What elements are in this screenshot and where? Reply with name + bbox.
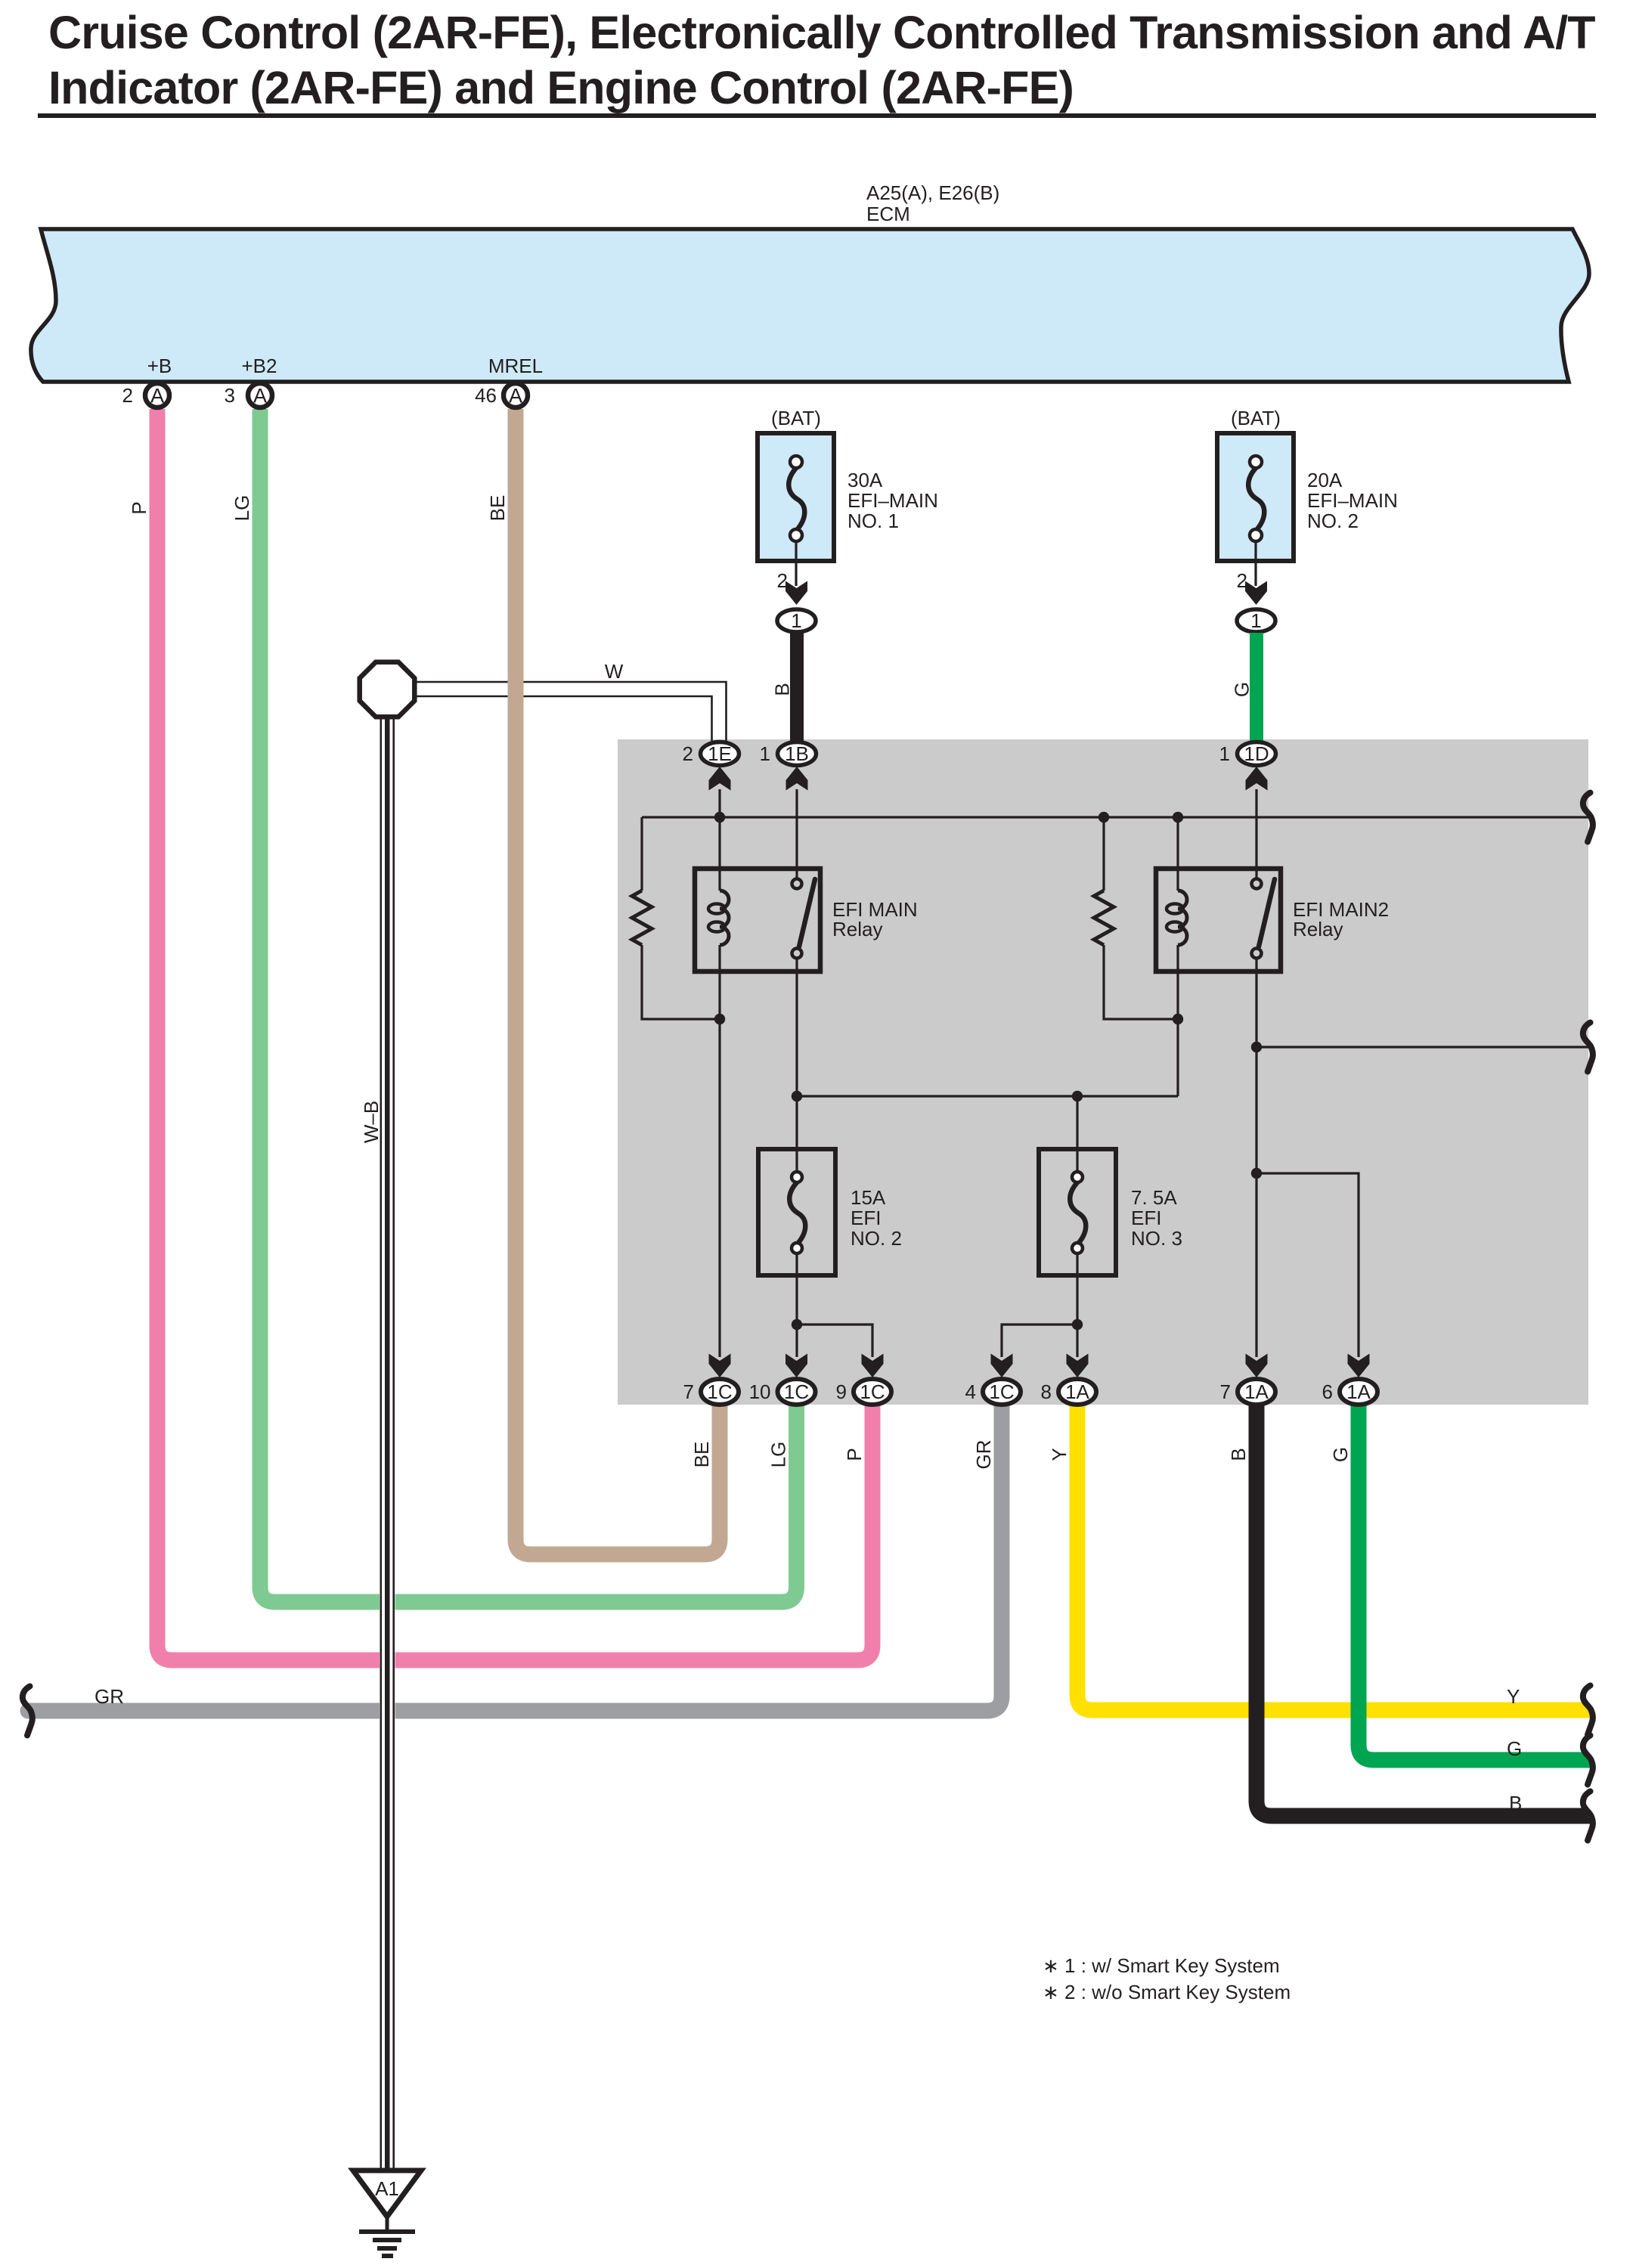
svg-text:7. 5A: 7. 5A	[1131, 1186, 1177, 1209]
svg-text:LG: LG	[767, 1442, 790, 1468]
svg-text:+B2: +B2	[242, 355, 277, 377]
svg-text:(BAT): (BAT)	[771, 407, 821, 429]
svg-text:A: A	[253, 385, 267, 407]
svg-text:7: 7	[683, 1380, 694, 1403]
svg-text:LG: LG	[231, 495, 253, 522]
svg-text:30A: 30A	[847, 469, 883, 491]
svg-text:EFI: EFI	[851, 1207, 881, 1229]
svg-text:(BAT): (BAT)	[1231, 407, 1281, 429]
svg-text:G: G	[1507, 1737, 1522, 1760]
svg-text:1A: 1A	[1065, 1380, 1089, 1403]
svg-text:1E: 1E	[708, 742, 732, 765]
svg-text:2: 2	[777, 569, 788, 592]
svg-text:B: B	[771, 683, 794, 696]
svg-text:2: 2	[122, 384, 133, 407]
svg-text:9: 9	[836, 1380, 847, 1403]
svg-text:A25(A), E26(B): A25(A), E26(B)	[866, 181, 999, 204]
svg-text:GR: GR	[95, 1685, 124, 1708]
svg-text:1: 1	[791, 609, 801, 632]
svg-text:P: P	[128, 501, 150, 514]
svg-text:BE: BE	[690, 1442, 713, 1468]
svg-text:2: 2	[1237, 569, 1247, 592]
svg-text:A: A	[509, 385, 522, 407]
svg-text:BE: BE	[486, 495, 509, 522]
svg-text:3: 3	[225, 384, 235, 407]
svg-text:1: 1	[1250, 609, 1261, 632]
svg-text:B: B	[1509, 1792, 1522, 1814]
svg-text:1B: 1B	[785, 742, 809, 765]
svg-text:G: G	[1329, 1447, 1352, 1462]
svg-text:46: 46	[475, 384, 497, 407]
svg-text:A1: A1	[375, 2177, 399, 2200]
svg-text:EFI–MAIN: EFI–MAIN	[847, 489, 938, 512]
svg-text:EFI–MAIN: EFI–MAIN	[1307, 489, 1398, 512]
svg-text:NO. 2: NO. 2	[851, 1227, 902, 1250]
svg-text:W–B: W–B	[360, 1101, 383, 1143]
svg-text:1A: 1A	[1346, 1380, 1371, 1403]
svg-text:Y: Y	[1507, 1685, 1520, 1708]
svg-text:1C: 1C	[989, 1380, 1014, 1403]
svg-text:1D: 1D	[1244, 742, 1269, 765]
svg-text:P: P	[843, 1448, 866, 1461]
svg-text:7: 7	[1220, 1380, 1231, 1403]
svg-text:Indicator (2AR-FE) and Engine: Indicator (2AR-FE) and Engine Control (2…	[48, 62, 1074, 113]
svg-text:A: A	[150, 385, 164, 407]
svg-text:ECM: ECM	[866, 203, 910, 225]
svg-text:1C: 1C	[707, 1380, 732, 1403]
svg-text:20A: 20A	[1307, 469, 1343, 491]
svg-text:8: 8	[1041, 1380, 1052, 1403]
svg-text:NO. 1: NO. 1	[847, 510, 899, 532]
svg-text:6: 6	[1322, 1380, 1333, 1403]
svg-text:10: 10	[749, 1380, 771, 1403]
svg-text:1: 1	[760, 742, 770, 765]
svg-text:Relay: Relay	[832, 918, 882, 940]
svg-text:G: G	[1231, 682, 1253, 697]
svg-text:1C: 1C	[784, 1380, 809, 1403]
svg-text:B: B	[1227, 1448, 1250, 1461]
svg-text:W: W	[605, 660, 624, 683]
svg-text:2: 2	[683, 742, 693, 765]
svg-text:∗ 1 : w/ Smart Key System: ∗ 1 : w/ Smart Key System	[1043, 1954, 1280, 1977]
svg-text:15A: 15A	[851, 1186, 886, 1209]
svg-text:∗ 2 : w/o Smart Key System: ∗ 2 : w/o Smart Key System	[1043, 1981, 1291, 2003]
svg-text:NO. 3: NO. 3	[1131, 1227, 1182, 1250]
svg-text:1C: 1C	[860, 1380, 885, 1403]
svg-text:NO. 2: NO. 2	[1307, 510, 1359, 532]
svg-text:MREL: MREL	[488, 355, 543, 377]
svg-text:Y: Y	[1048, 1448, 1071, 1461]
svg-text:1: 1	[1219, 742, 1230, 765]
svg-text:EFI: EFI	[1131, 1207, 1161, 1229]
svg-text:1A: 1A	[1244, 1380, 1269, 1403]
svg-text:Cruise Control (2AR-FE), Elect: Cruise Control (2AR-FE), Electronically …	[48, 7, 1595, 58]
svg-text:GR: GR	[972, 1440, 995, 1470]
svg-text:4: 4	[965, 1380, 976, 1403]
svg-text:Relay: Relay	[1293, 918, 1343, 940]
svg-text:+B: +B	[147, 355, 172, 377]
